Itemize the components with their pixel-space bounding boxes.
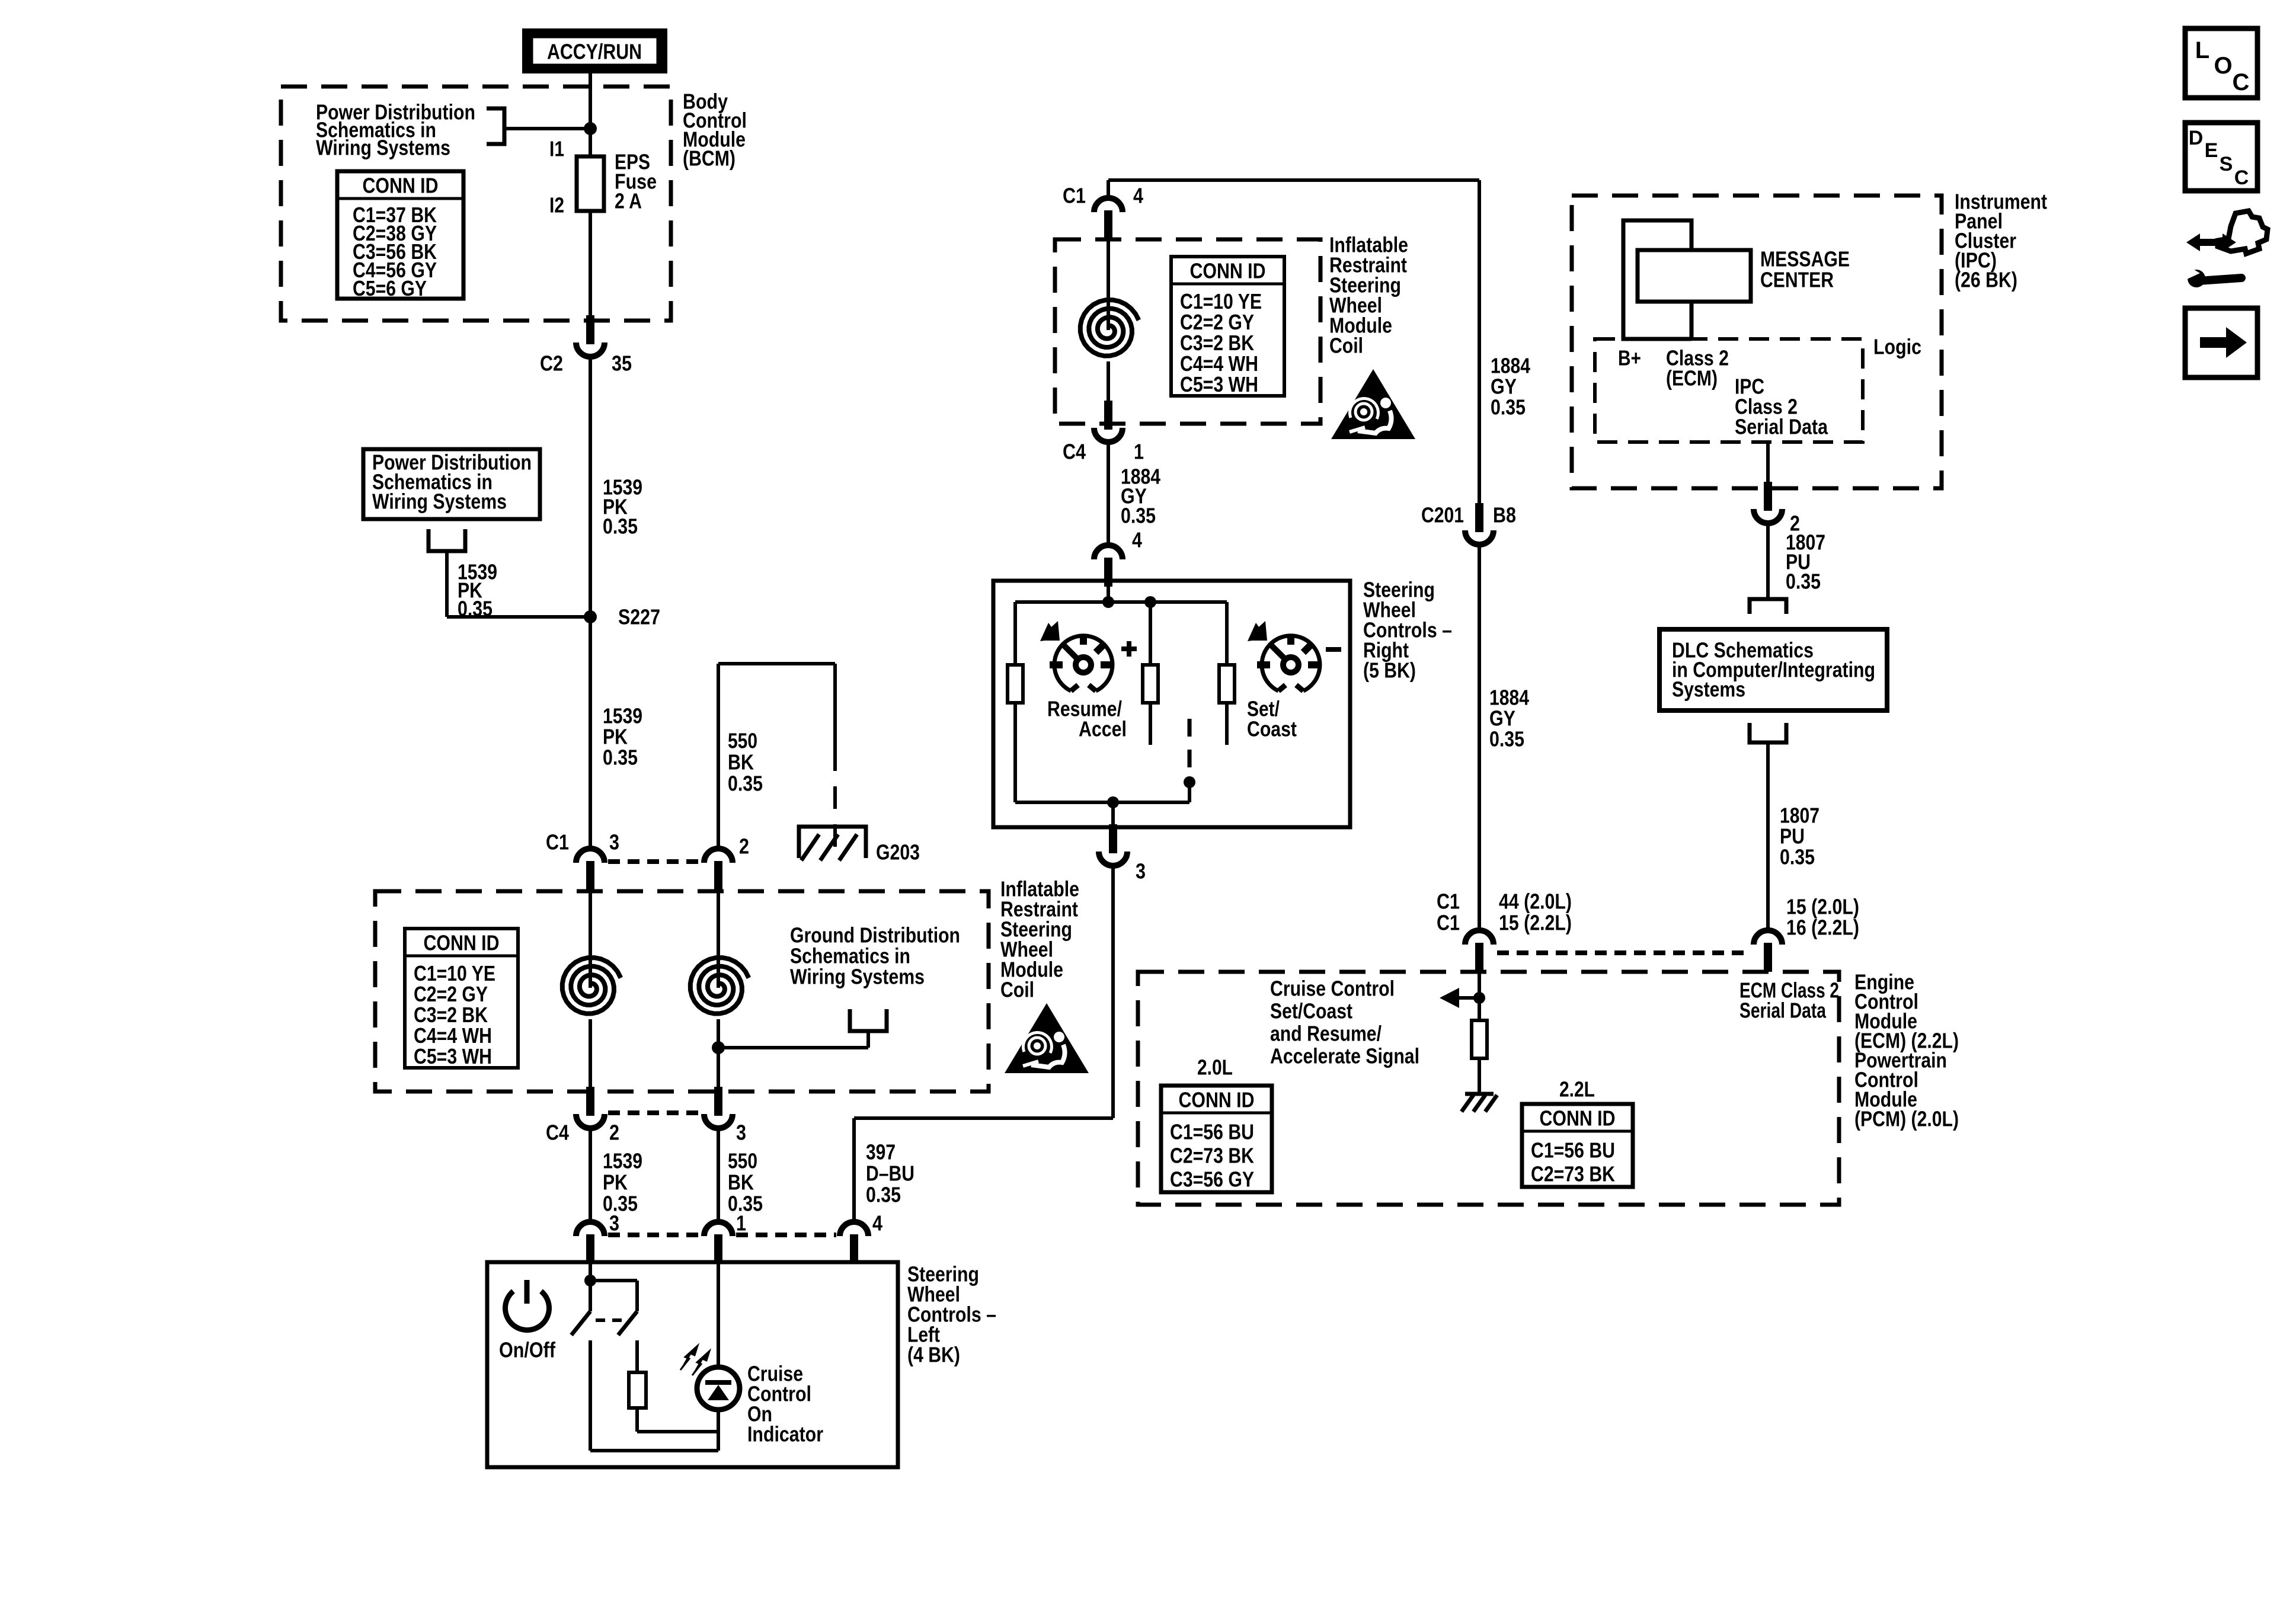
svg-text:2: 2 [609,1121,619,1145]
svg-text:C201: C201 [1421,503,1464,527]
wire resistor to LED return [635,1408,639,1432]
svg-text:0.35: 0.35 [458,597,493,621]
svg-text:Coil: Coil [1000,978,1034,1002]
svg-text:C3=56 GY: C3=56 GY [1170,1167,1254,1192]
svg-text:Cruise Control: Cruise Control [1270,977,1395,1001]
signal arrow into ECM [1440,988,1459,1008]
wire resistor to ground [1478,1058,1481,1094]
svg-text:1: 1 [736,1211,746,1235]
svg-text:Accelerate Signal: Accelerate Signal [1270,1044,1419,1068]
svg-text:3: 3 [1136,859,1146,884]
svg-text:1: 1 [1134,440,1144,464]
coil clockspring right [717,890,720,988]
component box Steering Wheel Controls - Left [487,1262,898,1467]
icon On/Off power symbol [506,1291,549,1330]
icon button LOC [2185,28,2257,98]
wire 1539 PK to switch [589,1128,592,1222]
svg-text:Coast: Coast [1247,717,1297,741]
wire 1539 PK C2-35 to S227 [589,357,592,617]
resistor Resume/Accel [1008,665,1023,703]
connector table CONN ID (coil mid) [1171,257,1284,396]
connector SWC-left pin 4 [840,1222,868,1236]
wire resume branch lower [1013,703,1017,802]
wire top rail C1-4 to right drop [1108,178,1479,182]
svg-text:0.35: 0.35 [603,514,638,539]
wire Power Distribution to S227 [445,551,449,617]
ground internal ECM [1465,1092,1494,1096]
connector ECM C1 input [1465,930,1494,945]
connector ECM serial data input [1754,930,1782,945]
connector table CONN ID (ECM 2.0L) [1161,1086,1272,1192]
connector SWC-right pin 4 [1094,545,1123,559]
svg-text:E: E [2205,139,2218,162]
svg-text:L: L [2195,37,2209,63]
node switch pivot junction [584,1275,596,1286]
gauge icon Resume/Accel + [1054,636,1112,691]
svg-text:and Resume/: and Resume/ [1270,1022,1382,1046]
connector table CONN ID (PCM 2.2L) [1522,1104,1633,1187]
wire dashed to ground G203 [833,748,837,853]
svg-text:CONN ID: CONN ID [424,931,500,955]
connector C4 pin 2 (left) [576,1114,605,1128]
reference box Power Distribution Schematics in Wiring Systems [363,449,540,519]
switch mechanical link dashed [596,1318,627,1322]
gauge icon Set/Coast - [1262,636,1320,691]
module box Body Control Module (BCM) dashed outline [281,87,671,321]
wire 1807 PU DLC to ECM [1766,742,1770,930]
svg-text:Logic: Logic [1873,335,1921,359]
icon LED light arrows [680,1346,698,1370]
node bottom rail junction [1107,796,1119,808]
wire switch link [590,1279,637,1282]
svg-text:C1: C1 [1437,889,1460,914]
node rail junction B [1144,596,1156,608]
svg-text:4: 4 [872,1211,882,1235]
icon SRS warning triangle (left) [1005,1003,1089,1073]
svg-text:B+: B+ [1618,346,1641,370]
wire 397 D-BU drop [1111,866,1115,1118]
module box Inflatable Restraint Steering Wheel Module Coil (mid) dashed [1055,239,1320,424]
wire exit to pin 3 [1111,802,1115,837]
connector C4 pin 3 (left) [704,1114,733,1128]
svg-text:(4 BK): (4 BK) [907,1343,960,1367]
node junction to Power Distribution [584,122,597,135]
wire middle branch [1149,602,1152,665]
svg-text:0.35: 0.35 [866,1183,901,1207]
svg-text:Wiring Systems: Wiring Systems [790,965,925,989]
svg-text:3: 3 [609,1211,619,1235]
wire coil to Ground Distribution [866,1031,870,1048]
icon SRS warning triangle (mid) [1331,369,1415,439]
wire 397 D-BU from right controls [854,1116,1113,1120]
svg-text:O: O [2214,53,2232,79]
svg-text:(ECM): (ECM) [1666,366,1718,391]
connector SWC-left pin 3 [576,1222,605,1236]
wire connector row dashes SWC-left [608,1233,701,1237]
module box Instrument Panel Cluster dashed [1572,196,1942,488]
icon button DESC [2185,123,2257,191]
svg-text:4: 4 [1133,184,1143,208]
wire junction to bracket [504,127,590,130]
svg-text:C2=73 BK: C2=73 BK [1531,1162,1615,1186]
svg-text:Accel: Accel [1079,717,1127,741]
wire into On/Off switch [589,1262,592,1311]
resistor middle [1143,665,1158,703]
svg-text:44 (2.0L): 44 (2.0L) [1499,889,1572,914]
svg-text:Serial Data: Serial Data [1739,998,1827,1023]
LED Cruise Control On Indicator [697,1367,740,1410]
svg-text:0.35: 0.35 [1121,504,1156,528]
coil clockspring left [589,890,592,988]
svg-text:On/Off: On/Off [499,1338,556,1362]
svg-text:CONN ID: CONN ID [363,174,439,198]
power feed box ACCY/RUN [522,28,667,73]
module box Inflatable Restraint Steering Wheel Module Coil (left) dashed [375,891,989,1092]
icon button next arrow [2185,308,2257,377]
icon message center display [1623,220,1691,339]
svg-text:CONN ID: CONN ID [1540,1106,1616,1131]
svg-text:C5=6 GY: C5=6 GY [353,276,427,300]
wire 1884 GY C4-1 to SWC-right [1107,442,1110,545]
switch On/Off blade A [571,1311,590,1335]
svg-text:CONN ID: CONN ID [1190,259,1266,283]
svg-text:1539: 1539 [603,1149,642,1173]
svg-text:I2: I2 [549,193,564,217]
wire connector row dashes ECM [1497,950,1750,955]
svg-text:Indicator: Indicator [747,1422,823,1446]
node ECM signal junction [1473,992,1485,1004]
svg-text:Wiring Systems: Wiring Systems [372,489,507,514]
wire LED drop [717,1262,720,1368]
wire ACCY/RUN to fuse [589,73,592,156]
wire 550 BK loop [718,662,835,665]
bracket below DLC box [1750,723,1786,742]
connector table CONN ID (coil left) [405,929,518,1068]
svg-text:B8: B8 [1493,503,1516,527]
ground G203 [799,827,866,858]
svg-text:C2=73 BK: C2=73 BK [1170,1144,1254,1168]
resistor ECM pulldown [1472,1020,1487,1058]
reference box DLC Schematics [1659,629,1887,710]
svg-text:4: 4 [1132,528,1142,552]
connector IPC pin 2 [1754,509,1782,523]
resistor Set/Coast [1219,665,1235,703]
wire switch contact B to resistor [635,1340,639,1372]
node rail junction A [1102,596,1114,608]
wire switch to bottom rail [1188,782,1191,802]
svg-text:C5=3 WH: C5=3 WH [1180,372,1258,396]
wire switch contact A [589,1340,592,1451]
svg-text:C1=56 BU: C1=56 BU [1531,1138,1615,1163]
coil clockspring mid [1107,239,1110,330]
connector C1 pin 2 [704,849,733,863]
svg-text:C5=3 WH: C5=3 WH [414,1044,492,1068]
bracket Ground Distribution tie [850,1009,887,1031]
svg-text:35: 35 [612,351,632,376]
svg-text:ACCY/RUN: ACCY/RUN [547,40,642,64]
connector C201 pin B8 [1465,530,1494,545]
connector C4 pin 1 (mid) [1094,428,1123,442]
svg-text:(BCM): (BCM) [683,146,736,171]
svg-text:3: 3 [609,830,619,854]
svg-text:BK: BK [728,1170,754,1195]
svg-text:CENTER: CENTER [1760,268,1834,292]
wire IPC output [1766,442,1770,495]
svg-text:2.0L: 2.0L [1197,1055,1233,1080]
svg-text:0.35: 0.35 [1780,845,1815,869]
svg-text:Set/Coast: Set/Coast [1270,999,1352,1023]
wire 1539 PK S227 to C1 [589,617,592,849]
node splice S227 [584,610,597,623]
connector C1 pin 4 (coil mid) [1094,198,1123,212]
svg-text:2: 2 [739,834,749,859]
svg-text:C4: C4 [1063,440,1086,464]
svg-text:2 A: 2 A [615,189,642,213]
svg-text:Systems: Systems [1672,677,1745,702]
svg-text:Wiring Systems: Wiring Systems [316,136,450,160]
svg-text:S: S [2220,153,2233,175]
svg-text:C: C [2234,167,2249,189]
logic box dashed [1595,339,1863,442]
wire ECM pulldown [1478,972,1481,1020]
component box Steering Wheel Controls - Right [993,581,1350,827]
svg-text:S227: S227 [618,605,660,629]
module box ECM/PCM dashed [1138,972,1839,1205]
wire resume branch [1013,602,1017,665]
svg-text:16 (2.2L): 16 (2.2L) [1786,916,1859,940]
svg-text:C1: C1 [1437,911,1460,935]
svg-text:550: 550 [728,729,757,753]
wire set branch [1225,602,1229,665]
svg-text:15 (2.2L): 15 (2.2L) [1499,911,1572,935]
svg-text:(PCM) (2.0L): (PCM) (2.0L) [1854,1107,1959,1131]
svg-text:Coil: Coil [1329,334,1363,358]
svg-text:(26 BK): (26 BK) [1955,268,2017,292]
svg-text:0.35: 0.35 [1491,395,1526,420]
svg-text:550: 550 [728,1149,757,1173]
resistor SWC-left [629,1372,646,1408]
wire switch return bottom [590,1449,718,1452]
svg-text:CONN ID: CONN ID [1179,1088,1255,1112]
wire middle branch lower [1149,703,1152,745]
wire set branch lower [1225,703,1229,745]
svg-text:(5 BK): (5 BK) [1363,658,1416,683]
bracket below Power Distribution box [428,529,465,551]
connector SWC-right pin 3 [1099,852,1127,866]
wire SWC-right bottom rail [1015,801,1189,804]
node switch contact [1184,776,1195,788]
bracket above DLC box [1750,599,1786,614]
svg-text:C1: C1 [1063,184,1086,208]
icon component view (hood and wrench) [2186,233,2236,251]
wire IPC to DLC [1766,523,1770,599]
svg-text:0.35: 0.35 [728,772,763,796]
fuse EPS Fuse 2 A [589,156,592,211]
svg-text:C4: C4 [546,1121,569,1145]
svg-text:C: C [2233,69,2250,95]
wire 1884 GY C201 to ECM [1478,545,1481,930]
svg-text:0.35: 0.35 [603,1192,638,1216]
connector C2 pin 35 [576,343,605,357]
wire connector row dashes C1 [608,859,701,864]
connector SWC-left pin 1 [704,1222,733,1236]
svg-text:C1: C1 [546,830,569,854]
svg-text:0.35: 0.35 [1489,727,1524,751]
svg-text:0.35: 0.35 [1786,569,1821,594]
switch On/Off blade B [618,1311,637,1335]
svg-text:D: D [2189,127,2204,149]
svg-text:C2: C2 [540,351,563,376]
wire 550 BK to switch [717,1128,720,1222]
wire 1884 GY top drop [1478,180,1481,503]
wire connector row dashes C4 [608,1110,701,1115]
svg-text:0.35: 0.35 [603,745,638,770]
node junction coil/ground tie [712,1041,725,1054]
svg-text:G203: G203 [876,840,920,865]
svg-text:3: 3 [736,1121,746,1145]
svg-text:I1: I1 [549,137,564,161]
svg-text:D–BU: D–BU [866,1161,914,1186]
bracket Power Distribution Schematics tie [487,108,504,144]
svg-text:Serial Data: Serial Data [1735,415,1828,439]
svg-text:PK: PK [603,1170,628,1195]
svg-text:397: 397 [866,1140,896,1164]
switch Set/Resume contact dashed [1188,719,1192,773]
svg-text:BK: BK [728,750,754,774]
connector C1 pin 3 [576,849,605,863]
connector table CONN ID (BCM C1..C5) [337,171,463,299]
svg-text:C1=56 BU: C1=56 BU [1170,1120,1254,1144]
wire SWC-right top rail [1107,581,1110,602]
wire fuse to connector C2 [589,211,592,316]
svg-text:2.2L: 2.2L [1559,1077,1595,1102]
